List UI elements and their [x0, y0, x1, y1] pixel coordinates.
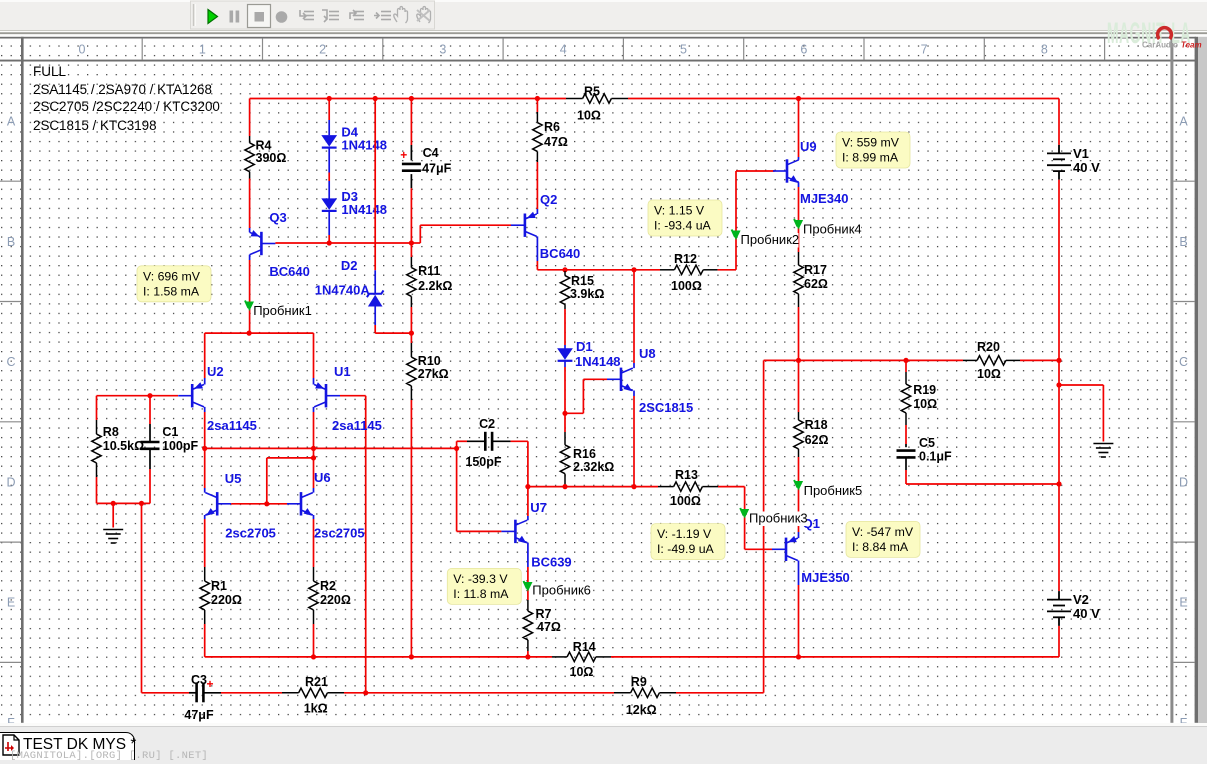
- svg-text:R13: R13: [675, 468, 698, 482]
- svg-text:E: E: [1179, 596, 1187, 610]
- wire U2 collector down: [204, 412, 206, 448]
- wire R1 to bottom rail: [204, 624, 206, 657]
- svg-text:I: 11.8 mA: I: 11.8 mA: [453, 587, 509, 601]
- wire R6 to Q2 emitter: [536, 162, 538, 209]
- wire R9 to R21 node: [366, 692, 614, 694]
- wire U5 emitter to R1: [204, 519, 206, 567]
- junction output row / R19: [903, 358, 908, 363]
- svg-text:A: A: [7, 115, 16, 129]
- svg-text:V: 1.15 V: V: 1.15 V: [654, 204, 705, 218]
- wire D2 to R11/R10 node: [375, 332, 411, 334]
- wire Q1 base row: [745, 548, 773, 550]
- wire U9 emitter to R17 (probe4 here): [798, 187, 800, 252]
- wire U8 collector up to VAS row: [633, 270, 635, 363]
- right ruler separator: [1170, 37, 1173, 723]
- step icon: [374, 12, 391, 20]
- svg-text:R17: R17: [804, 263, 827, 277]
- svg-text:Пробник1: Пробник1: [253, 303, 312, 318]
- wire U8 emitter down to R13 row: [633, 396, 635, 487]
- svg-text:R5: R5: [584, 85, 600, 99]
- U5 emitter lead: [204, 515, 206, 519]
- svg-text:1N4148: 1N4148: [341, 202, 387, 217]
- svg-text:2sc2705: 2sc2705: [314, 526, 365, 541]
- svg-text:R2: R2: [320, 579, 336, 593]
- wire riser up to U9 base level: [735, 171, 737, 270]
- svg-text:R1: R1: [211, 579, 227, 593]
- Q2 emitter lead: [536, 209, 538, 214]
- wire mid supply column: [1058, 385, 1060, 484]
- svg-text:I: 8.84 mA: I: 8.84 mA: [852, 540, 909, 554]
- svg-text:U7: U7: [530, 500, 547, 515]
- C1 bottom lead: [149, 449, 151, 469]
- junction output row / R17-R18: [796, 358, 801, 363]
- svg-text:U1: U1: [334, 364, 351, 379]
- U8 emitter lead: [633, 391, 635, 397]
- svg-text:I: -49.9 uA: I: -49.9 uA: [657, 542, 715, 556]
- junction row / R16: [562, 484, 567, 489]
- probe Probnik4: [801, 223, 861, 238]
- svg-text:1kΩ: 1kΩ: [304, 702, 328, 716]
- svg-text:220Ω: 220Ω: [320, 593, 351, 607]
- junction row / U8 emitter: [631, 484, 636, 489]
- left ruler corner separator: [21, 37, 24, 723]
- svg-text:2sa1145: 2sa1145: [332, 418, 382, 433]
- wire node to R11: [410, 243, 412, 257]
- zener diode D2 1N4740A: [367, 290, 384, 297]
- U1 emitter lead: [313, 378, 315, 385]
- wire R17 to output node: [798, 307, 800, 360]
- diode D3 1N4148: [321, 198, 337, 210]
- svg-text:Q2: Q2: [540, 192, 557, 207]
- svg-text:I: 1.58 mA: I: 1.58 mA: [143, 284, 200, 298]
- capacitor C2 (150 pF): [484, 432, 487, 451]
- wire U7 emitter to R7 (probe6): [527, 567, 529, 600]
- wire U2 emitter up: [204, 333, 206, 378]
- wire jog up: [419, 225, 421, 243]
- svg-text:220Ω: 220Ω: [211, 593, 242, 607]
- junction output row / supply column: [1056, 358, 1061, 363]
- wire to U9 base: [736, 170, 775, 172]
- wire between D4 and D3: [328, 173, 330, 182]
- svg-text:1N4740A: 1N4740A: [315, 283, 371, 298]
- junction R21/R9 node / U1 base column: [363, 690, 368, 695]
- svg-text:C3: C3: [191, 673, 207, 687]
- probe Probnik5: [802, 484, 862, 499]
- svg-text:V: -39.3 V: V: -39.3 V: [453, 572, 508, 586]
- U2 collector lead: [204, 407, 206, 412]
- junction top rail / U9 collector: [796, 96, 801, 101]
- svg-text:C1: C1: [162, 425, 178, 439]
- toolbar button panel: [191, 1, 435, 29]
- record button icon: [276, 11, 288, 23]
- transistor U6 2sc2705 (NPN): [287, 492, 313, 515]
- svg-text:FULL: FULL: [33, 64, 67, 79]
- junction C5 row / supply column: [1056, 481, 1061, 486]
- wire U6 emitter to R2: [313, 519, 315, 567]
- wire rail down to D2 cathode (crosses base wire): [374, 99, 376, 271]
- svg-text:Пробник3: Пробник3: [749, 511, 808, 526]
- C2 right lead: [492, 440, 511, 442]
- svg-text:4: 4: [560, 43, 567, 57]
- svg-text:Пробник4: Пробник4: [803, 222, 862, 237]
- wire top positive rail (left segment): [250, 98, 566, 100]
- wire bias node right jog: [411, 242, 420, 244]
- svg-text:BC640: BC640: [540, 246, 580, 261]
- resistor R9 (12 kOhm): [614, 688, 676, 697]
- wire R21 right lead: [344, 692, 366, 694]
- resistor R14 (10 Ohm, series): [552, 652, 611, 661]
- V/I box probe4: [836, 132, 910, 168]
- svg-text:R18: R18: [805, 418, 828, 432]
- wire U7 base row: [457, 530, 502, 532]
- svg-text:D: D: [1179, 475, 1188, 489]
- junction top rail / R6 branch: [535, 96, 540, 101]
- wire Q3 collector down to diff pair rail: [249, 260, 251, 333]
- wire R12 to riser: [718, 269, 736, 271]
- D3 anode lead: [328, 181, 330, 199]
- U7 emitter lead: [527, 543, 529, 567]
- svg-text:R9: R9: [631, 675, 647, 689]
- svg-text:3.9kΩ: 3.9kΩ: [570, 287, 604, 301]
- svg-text:V1: V1: [1073, 146, 1089, 161]
- wire ground branch down: [1102, 385, 1104, 442]
- wire R8 to bottom of input loop: [96, 477, 98, 503]
- svg-text:62Ω: 62Ω: [805, 433, 829, 447]
- D2 cathode lead: [374, 270, 376, 293]
- wire feedback column (output to R9): [763, 360, 765, 692]
- svg-text:U9: U9: [800, 139, 817, 154]
- hand icon: [417, 7, 431, 24]
- svg-text:C2: C2: [479, 417, 495, 431]
- wire R2 to bottom rail: [313, 624, 315, 657]
- svg-text:1N4148: 1N4148: [575, 354, 621, 369]
- wire bottom of input loop: [97, 502, 151, 504]
- ruler/canvas separator: [0, 60, 1196, 62]
- junction D2 / R11 / R10: [409, 331, 414, 336]
- transistor U1 2sa1145 (PNP): [314, 384, 340, 407]
- transistor U7 BC639 (NPN): [501, 520, 527, 543]
- resistor R8 (10.5 kOhm): [92, 420, 101, 477]
- svg-text:R11: R11: [418, 264, 440, 278]
- wire compensation row: [205, 447, 457, 449]
- resistor R10 (27 kOhm): [407, 343, 416, 400]
- U6 collector lead: [313, 488, 315, 493]
- svg-text:0.1μF: 0.1μF: [919, 450, 952, 464]
- junction supply column / ground branch: [1056, 382, 1061, 387]
- svg-text:2SC1815: 2SC1815: [639, 400, 693, 415]
- wire node right jog: [565, 412, 583, 414]
- wire R10 down to bottom rail (crosses two wires): [410, 400, 412, 657]
- svg-text:R15: R15: [571, 274, 594, 288]
- junction bottom rail / R7: [525, 654, 530, 659]
- wire R13 to Q1 branch: [718, 486, 745, 488]
- svg-text:U6: U6: [314, 470, 331, 485]
- sheet right edge: [1195, 37, 1198, 723]
- svg-text:R16: R16: [573, 447, 596, 461]
- junction row / U2-U5 collectors: [202, 446, 207, 451]
- wire C1 top lead (red): [149, 396, 151, 424]
- wire to C3: [142, 692, 190, 694]
- svg-text:10Ω: 10Ω: [913, 397, 937, 411]
- svg-text:R20: R20: [977, 340, 1000, 354]
- svg-text:V: -1.19 V: V: -1.19 V: [657, 527, 712, 541]
- junction emitter rail / Q3 collector (probe1): [247, 331, 252, 336]
- resistor R16 (2.32 kOhm): [560, 432, 569, 487]
- bottom tab bar: [0, 723, 1207, 725]
- wire jog up: [582, 379, 584, 413]
- svg-text:R6: R6: [544, 120, 560, 134]
- svg-text:Пробник2: Пробник2: [741, 232, 800, 247]
- transistor Q2 BC640 (PNP): [511, 214, 537, 237]
- svg-text:40 V: 40 V: [1073, 606, 1100, 621]
- junction bottom rail / Q1 collector: [796, 654, 801, 659]
- svg-text:47μF: 47μF: [422, 162, 452, 176]
- junction bottom rail / R2: [311, 654, 316, 659]
- wire rail to U9 collector: [798, 99, 800, 158]
- probe Probnik3: [747, 512, 807, 527]
- wire V2 to bottom rail: [1058, 626, 1060, 657]
- battery V1 (40 V): [1047, 145, 1071, 180]
- junction base wire / mirror tap: [264, 501, 269, 506]
- wire U1 collector to mirror tap: [313, 448, 315, 458]
- svg-text:+: +: [400, 148, 407, 162]
- transistor Q1 MJE350 (PNP): [772, 538, 798, 561]
- svg-text:3: 3: [439, 43, 446, 57]
- svg-text:I: 8.99 mA: I: 8.99 mA: [842, 151, 899, 165]
- resistor R18 (62 Ohm): [794, 412, 803, 457]
- transistor U2 2sa1145 (PNP): [178, 384, 204, 407]
- svg-text:D1: D1: [576, 339, 593, 354]
- svg-text:100Ω: 100Ω: [671, 279, 702, 293]
- svg-text:10Ω: 10Ω: [577, 109, 601, 123]
- V/I box probe2: [648, 200, 722, 236]
- svg-text:47Ω: 47Ω: [537, 620, 561, 634]
- svg-text:Q3: Q3: [269, 210, 286, 225]
- wire Q2 collector down: [536, 261, 538, 270]
- junction row / C2 + U7 base: [454, 446, 459, 451]
- wire C5 row to supply column: [906, 483, 1059, 485]
- resistor R21 (1 kOhm): [282, 688, 344, 697]
- junction row / C2-U7: [525, 484, 530, 489]
- D4 cathode lead: [328, 148, 330, 172]
- wire Q1 collector to bottom rail: [798, 585, 800, 657]
- sheet outer top border: [0, 37, 1196, 39]
- svg-text:R8: R8: [103, 425, 119, 439]
- wire rail to C4: [410, 99, 412, 146]
- junction input loop / ground: [111, 501, 116, 506]
- wire rail to R6: [536, 99, 538, 113]
- svg-text:R7: R7: [536, 607, 552, 621]
- wire C2 right down to R13 row: [527, 441, 529, 486]
- wire R7 to bottom rail: [527, 651, 529, 657]
- U7 collector lead: [527, 516, 529, 520]
- svg-text:7: 7: [921, 43, 928, 57]
- resistor R12 (100 Ohm): [660, 265, 718, 274]
- resistor R13 (100 Ohm): [658, 482, 718, 491]
- svg-text:2sa1145: 2sa1145: [207, 418, 257, 433]
- svg-text:BC640: BC640: [269, 264, 309, 279]
- svg-text:2sc2705: 2sc2705: [225, 526, 276, 541]
- wire U1 collector down: [313, 412, 315, 448]
- svg-text:D: D: [6, 475, 15, 489]
- svg-text:E: E: [7, 596, 15, 610]
- wire output row to R19: [905, 360, 907, 372]
- svg-text:C: C: [6, 355, 15, 369]
- svg-text:10Ω: 10Ω: [977, 367, 1001, 381]
- svg-text:V: -547 mV: V: -547 mV: [852, 525, 914, 539]
- svg-text:100pF: 100pF: [162, 439, 198, 453]
- D1 cathode lead: [564, 362, 566, 367]
- MAGNITOLA logo: [1104, 17, 1207, 51]
- battery V2 (40 V): [1047, 591, 1071, 626]
- wire V1 to output node row: [1058, 180, 1060, 361]
- wire Q2 collector row: [537, 269, 660, 271]
- U6 emitter lead: [313, 515, 315, 519]
- wire R9 right lead row: [676, 692, 764, 694]
- svg-text:12kΩ: 12kΩ: [626, 703, 657, 717]
- U9 collector lead: [798, 157, 800, 160]
- wire C2 right: [511, 440, 528, 442]
- wire C3 column up to input loop: [141, 503, 143, 692]
- svg-text:BC639: BC639: [531, 555, 571, 570]
- junction mirror tap: [311, 455, 316, 460]
- wire D1 to node: [564, 367, 566, 413]
- Q3 collector lead: [249, 255, 251, 260]
- wire to Q2 base: [420, 224, 511, 226]
- diode D1 1N4148: [557, 348, 573, 360]
- diode D4 1N4148: [321, 135, 337, 147]
- transistor U8 2SC1815 (NPN): [607, 368, 633, 391]
- junction row / R15: [562, 267, 567, 272]
- wire C1 to loop bottom: [149, 469, 151, 503]
- svg-text:I: -93.4 uA: I: -93.4 uA: [654, 219, 712, 233]
- watermark: [10, 750, 208, 762]
- wire down to U5 collector: [204, 448, 206, 488]
- wire R13 row left: [528, 486, 658, 488]
- capacitor C5 (0.1 uF): [897, 449, 916, 452]
- svg-text:1: 1: [199, 43, 206, 57]
- svg-text:U8: U8: [639, 346, 656, 361]
- wire bottom rail (right of R14): [611, 656, 1059, 658]
- U9 emitter lead: [798, 182, 800, 187]
- svg-text:5: 5: [680, 43, 687, 57]
- V/I box probe1: [137, 266, 211, 302]
- svg-text:R21: R21: [305, 675, 328, 689]
- C4 top lead: [410, 145, 412, 160]
- resistor R2 (220 Ohm): [309, 567, 318, 624]
- resistor R6 (47 Ohm): [533, 112, 542, 162]
- resistor R1 (220 Ohm): [200, 567, 209, 624]
- resistor R17 (62 Ohm): [794, 252, 803, 307]
- junction base wire / C4-R11 node: [409, 240, 414, 245]
- wire input row down to R8: [96, 396, 98, 420]
- svg-text:2SC2705 /2SC2240 / KTC3200: 2SC2705 /2SC2240 / KTC3200: [33, 99, 220, 114]
- wire U1 base to feedback column: [340, 395, 366, 397]
- step icon: [322, 10, 339, 22]
- document tab: [0, 732, 135, 760]
- svg-text:150pF: 150pF: [465, 455, 501, 469]
- junction top rail / D4 branch: [327, 96, 332, 101]
- svg-text:Пробник5: Пробник5: [804, 483, 863, 498]
- svg-text:2SC1815 / KTC3198: 2SC1815 / KTC3198: [33, 118, 157, 133]
- resistor R11 (2.2 kOhm): [407, 257, 416, 307]
- ground (input): [103, 530, 123, 544]
- svg-text:2SA1145 / 2SA970 / KTA1268: 2SA1145 / 2SA970 / KTA1268: [33, 82, 212, 97]
- capacitor C4 (47uF, polarized): [402, 163, 421, 166]
- junction top rail / C4 branch: [409, 96, 414, 101]
- probe Probnik2: [739, 233, 799, 248]
- C3 right lead: [204, 692, 221, 694]
- svg-text:A: A: [1179, 115, 1188, 129]
- D4 anode lead: [328, 120, 330, 135]
- D2 anode lead: [374, 307, 376, 326]
- wire U1 emitter up: [313, 333, 315, 378]
- svg-text:C4: C4: [423, 146, 439, 160]
- wire C3 to R21: [221, 692, 282, 694]
- V/I box probe5: [846, 521, 920, 557]
- svg-text:V2: V2: [1073, 592, 1089, 607]
- svg-text:V: 696 mV: V: 696 mV: [143, 269, 201, 283]
- V/I box probe3: [651, 524, 725, 560]
- wire row to R15: [564, 270, 566, 271]
- svg-text:R12: R12: [674, 252, 697, 266]
- wire bottom rail (left of R14): [205, 656, 552, 658]
- wire top positive rail (right segment): [628, 98, 1059, 100]
- svg-text:2: 2: [319, 43, 326, 57]
- svg-text:1N4148: 1N4148: [341, 138, 387, 153]
- resistor R4 (390 Ohm): [245, 136, 254, 179]
- C5 bottom lead: [905, 457, 907, 470]
- svg-text:10Ω: 10Ω: [570, 665, 594, 679]
- wire Q3 base to bias node: [275, 242, 411, 244]
- Q3 emitter lead: [249, 228, 251, 232]
- transistor U5 2sc2705 (NPN): [205, 492, 231, 515]
- svg-text:B: B: [7, 235, 15, 249]
- C1 top lead: [149, 424, 151, 442]
- wire C2 left jog up: [456, 441, 458, 448]
- svg-text:8: 8: [1041, 43, 1048, 57]
- svg-text:390Ω: 390Ω: [256, 151, 287, 165]
- capacitor C3 (47uF, polarized): [195, 683, 198, 702]
- svg-text:U5: U5: [225, 471, 242, 486]
- C4 bottom lead: [410, 174, 412, 188]
- pause button icon: [230, 11, 234, 23]
- wire down to Q1 base (probe3): [744, 487, 746, 550]
- svg-text:D2: D2: [341, 258, 358, 273]
- junction base wire / D3 cathode: [327, 240, 332, 245]
- C5 top lead: [905, 444, 907, 447]
- wire to U8 base: [583, 378, 607, 380]
- svg-text:62Ω: 62Ω: [804, 277, 828, 291]
- U2 emitter lead: [204, 378, 206, 385]
- wire mirror tap left: [267, 457, 314, 459]
- svg-text:Пробник6: Пробник6: [532, 583, 591, 598]
- wire R15 to D1: [564, 309, 566, 345]
- svg-text:0: 0: [79, 43, 86, 57]
- Q1 collector lead: [798, 561, 800, 586]
- svg-text:MJE340: MJE340: [800, 191, 848, 206]
- svg-text:V: 559 mV: V: 559 mV: [842, 136, 900, 150]
- capacitor C1 (100 pF): [141, 441, 160, 444]
- wire node to R10: [410, 333, 412, 343]
- wire R19 to C5: [905, 425, 907, 444]
- resistor R15 (3.9 kOhm): [560, 271, 569, 309]
- svg-text:+: +: [207, 677, 214, 691]
- D1 anode lead: [564, 345, 566, 349]
- svg-text:47μF: 47μF: [184, 708, 214, 722]
- svg-text:B: B: [1179, 235, 1187, 249]
- wire ground branch: [1059, 384, 1103, 386]
